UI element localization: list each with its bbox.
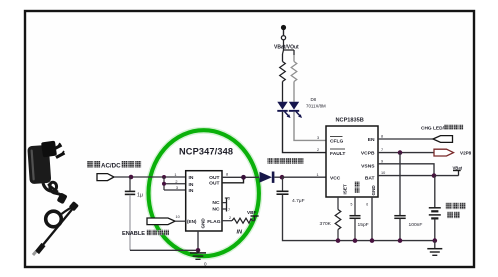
node input junction xyxy=(129,175,134,180)
svg-text:(EN): (EN) xyxy=(187,219,197,224)
svg-text:IN: IN xyxy=(189,188,194,194)
svg-text:NC: NC xyxy=(212,200,220,206)
svg-text:OUT: OUT xyxy=(209,175,219,181)
battery BT1 xyxy=(429,176,441,241)
resistor R2 370K xyxy=(320,197,341,241)
svg-text:IN: IN xyxy=(237,230,244,236)
svg-text:8: 8 xyxy=(381,135,383,139)
connector V2P8 arrow xyxy=(434,149,454,156)
svg-text:10: 10 xyxy=(176,215,180,219)
label CHG LED / 触发信号 xyxy=(421,125,463,132)
node diode out junction xyxy=(280,175,285,180)
svg-text:CHG LED/: CHG LED/ xyxy=(421,126,445,132)
svg-text:VCPB: VCPB xyxy=(361,151,375,157)
capacitor C1 1u xyxy=(125,177,143,250)
pin label 时基 vertical xyxy=(355,182,360,187)
diode label 外接肖特二极管 xyxy=(268,158,304,164)
svg-text:NCP347/348: NCP347/348 xyxy=(179,147,233,157)
node VCPB junction xyxy=(398,150,403,155)
wire input rail xyxy=(114,176,186,178)
svg-text:10: 10 xyxy=(381,171,385,175)
power flag VBF xyxy=(247,210,259,221)
label ENABLE 使能信号 xyxy=(122,230,169,237)
node U2 GND bus xyxy=(370,238,375,243)
node IN jumper junction xyxy=(162,182,166,186)
svg-text:2: 2 xyxy=(175,180,177,184)
svg-text:5: 5 xyxy=(351,203,353,207)
svg-text:AC/DC: AC/DC xyxy=(101,162,121,169)
IC U2 NCP1835B xyxy=(326,117,378,197)
NC tie bar xyxy=(222,198,228,212)
svg-text:4.7μF: 4.7μF xyxy=(292,198,305,204)
svg-text:NC: NC xyxy=(212,207,220,213)
LED D8a xyxy=(277,102,290,118)
wire OUT1 xyxy=(222,176,259,178)
node OUT join xyxy=(241,175,246,180)
svg-text:7011X/8M: 7011X/8M xyxy=(306,104,326,109)
input connector label 墙式AC/DC适配器 xyxy=(87,161,141,169)
wire U1 GND stem xyxy=(197,231,199,250)
node R2 bus xyxy=(336,238,341,243)
label 锂离子电池 xyxy=(446,203,466,218)
ground left xyxy=(190,250,207,266)
green highlight circle xyxy=(149,130,259,256)
svg-text:V2P8: V2P8 xyxy=(460,150,472,155)
node BAT junction xyxy=(432,173,437,178)
svg-text:FAULT: FAULT xyxy=(330,151,345,157)
svg-text:2: 2 xyxy=(317,148,319,152)
node IN bus top xyxy=(162,175,166,179)
svg-text:7: 7 xyxy=(381,148,383,152)
svg-text:D8: D8 xyxy=(311,97,317,102)
wire VSNS xyxy=(378,164,434,176)
wire OUT2 step xyxy=(222,177,244,183)
svg-text:7: 7 xyxy=(228,208,230,212)
svg-text:VSNS: VSNS xyxy=(361,164,375,170)
wire VCPB to V2P8 arrow xyxy=(378,152,434,154)
terminal VBat/VOut xyxy=(274,25,299,55)
svg-text:CFLG: CFLG xyxy=(330,139,344,145)
wire LED right column to CFLG xyxy=(294,112,326,141)
svg-text:NCP1835B: NCP1835B xyxy=(336,117,364,123)
capacitor C3 100nF xyxy=(394,153,422,241)
svg-text:1: 1 xyxy=(174,173,176,177)
wire bottom-left bus xyxy=(130,249,198,251)
diode D1 xyxy=(260,172,283,183)
label D8 7011X/8M xyxy=(306,97,326,109)
svg-text:VBat: VBat xyxy=(453,166,463,171)
LED D8b xyxy=(289,102,302,118)
svg-text:1μ: 1μ xyxy=(137,193,143,199)
svg-text:2: 2 xyxy=(229,216,231,220)
svg-text:VBF: VBF xyxy=(247,210,257,215)
capacitor C2 4.7uF xyxy=(277,177,339,240)
wire LED left column to FAULT xyxy=(283,112,327,153)
svg-text:GND: GND xyxy=(201,218,206,229)
node battery bus xyxy=(433,238,438,243)
svg-text:BAT: BAT xyxy=(365,176,375,182)
svg-text:3: 3 xyxy=(317,136,319,140)
svg-text:100nF: 100nF xyxy=(409,222,423,228)
node C3 bus xyxy=(398,238,403,243)
svg-text:5: 5 xyxy=(228,197,230,201)
svg-text:6: 6 xyxy=(366,203,368,207)
wire U2 GND stem xyxy=(371,197,373,241)
svg-text:8: 8 xyxy=(226,173,228,177)
wire bottom-right bus xyxy=(338,240,435,242)
node GND junction xyxy=(196,248,201,253)
AC/DC adapter photo xyxy=(27,141,79,255)
resistor R-FLAG xyxy=(222,218,255,223)
svg-text:GND: GND xyxy=(371,185,376,196)
connector ENABLE arrow xyxy=(147,218,186,225)
connector CHG-LED arrow xyxy=(433,136,453,143)
svg-text:VCC: VCC xyxy=(330,176,341,182)
svg-text:15pF: 15pF xyxy=(358,222,369,228)
ground right xyxy=(427,241,442,256)
svg-text:1: 1 xyxy=(317,173,319,177)
svg-text:FLAG: FLAG xyxy=(207,219,221,225)
connector J1 input arrow xyxy=(97,174,114,181)
IC U1 NCP347/348 xyxy=(174,147,233,232)
wire IN pins jumper xyxy=(164,177,186,190)
svg-text:IN: IN xyxy=(189,182,194,188)
svg-text:ENABLE: ENABLE xyxy=(122,231,145,237)
svg-text:VBat/VOut: VBat/VOut xyxy=(274,45,299,51)
svg-text:ISET: ISET xyxy=(343,184,348,194)
resistor R-LED-right xyxy=(291,55,297,102)
power flag VBat xyxy=(453,166,463,176)
svg-text:IN: IN xyxy=(189,175,194,181)
capacitor C4 15pF xyxy=(350,197,369,241)
svg-text:0: 0 xyxy=(204,262,207,267)
wire rail to U2 VCC xyxy=(282,176,326,178)
node C4 bus xyxy=(353,238,358,243)
svg-text:EN: EN xyxy=(368,137,375,143)
svg-text:370K: 370K xyxy=(320,221,332,227)
svg-text:9: 9 xyxy=(381,159,383,163)
svg-text:OUT: OUT xyxy=(209,181,219,187)
svg-text:3: 3 xyxy=(176,186,178,190)
wire BAT to VBat flag xyxy=(378,175,459,177)
wire EN to CHG arrow xyxy=(378,138,433,140)
resistor R-LED-left xyxy=(280,54,286,102)
